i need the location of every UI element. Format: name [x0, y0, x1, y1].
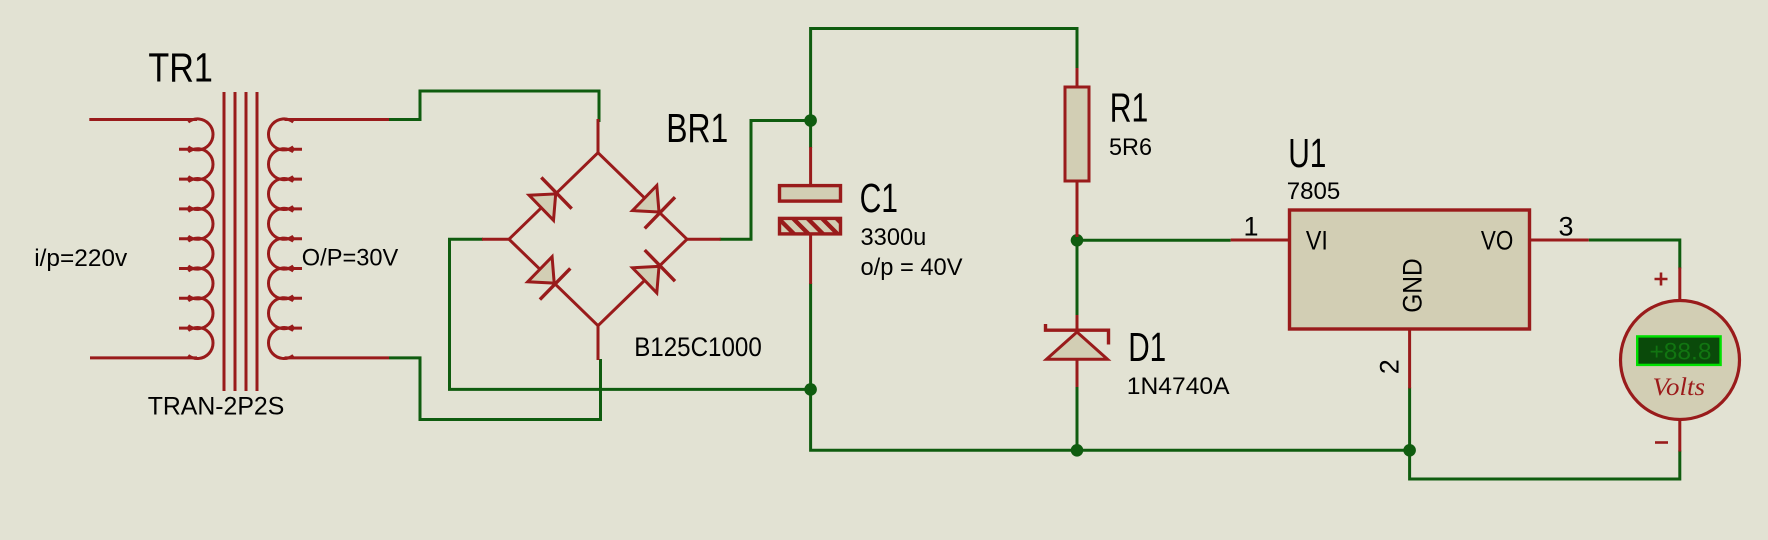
transformer TR1 secondary top lead pin: [285, 118, 390, 121]
wire secondary bottom to bridge AC2: [389, 358, 601, 420]
svg-text:Volts: Volts: [1653, 374, 1706, 401]
capacitor C1 top plate: [780, 186, 841, 202]
svg-text:3300u: 3300u: [861, 224, 927, 251]
bridge BR1 pin AC2 bottom: [597, 326, 600, 360]
resistor R1 bottom pin: [1076, 181, 1079, 237]
voltmeter body: [1621, 301, 1740, 420]
bridge BR1 pin DC+ right: [687, 238, 721, 241]
regulator U1 pin 3 (VO): [1530, 239, 1589, 242]
transformer TR1 secondary winding: [268, 119, 302, 359]
wire node to D1: [1076, 240, 1079, 317]
svg-text:C1: C1: [860, 175, 898, 221]
svg-text:B125C1000: B125C1000: [634, 332, 762, 362]
regulator U1 pin 1 (VI): [1231, 239, 1290, 242]
voltmeter display: [1637, 336, 1720, 365]
voltmeter - sign: [1655, 441, 1668, 444]
junction node U1 ground: [1403, 444, 1416, 457]
bridge diode D_TR (AC1 to DC+): [633, 186, 676, 229]
wire U1 GND to bottom rail: [1408, 387, 1411, 450]
transformer TR1 primary winding: [179, 119, 213, 359]
svg-text:5R6: 5R6: [1109, 134, 1152, 161]
zener D1 anode pin: [1076, 359, 1079, 387]
voltmeter - pin: [1678, 420, 1681, 452]
wire bottom rail: [811, 392, 1410, 450]
svg-text:VI: VI: [1306, 225, 1328, 255]
transformer TR1 primary bottom lead pin: [90, 356, 197, 359]
junction node C1 bottom: [804, 383, 817, 396]
wire node to U1 VI: [1077, 239, 1231, 242]
resistor R1 top pin: [1076, 68, 1079, 87]
svg-text:i/p=220v: i/p=220v: [34, 245, 128, 272]
transformer TR1 core: [224, 92, 257, 391]
svg-text:VO: VO: [1481, 225, 1513, 255]
svg-text:D1: D1: [1128, 324, 1166, 370]
svg-text:TR1: TR1: [148, 45, 213, 91]
wire bridge DC+ to C1 top node: [720, 121, 806, 240]
svg-text:GND: GND: [1397, 258, 1427, 313]
svg-text:BR1: BR1: [666, 105, 728, 151]
svg-text:3: 3: [1559, 212, 1574, 242]
wire top rail C1 to R1: [811, 29, 1077, 119]
wire R1 bottom to node: [1076, 234, 1079, 240]
svg-text:R1: R1: [1110, 85, 1149, 131]
svg-text:2: 2: [1375, 359, 1405, 374]
bridge diode D_BR (AC2 to DC+): [633, 250, 676, 293]
wire bridge DC- to C1 bottom node: [450, 239, 811, 389]
bridge diode D_TL (DC- to AC1): [529, 177, 572, 220]
transformer TR1 primary top lead pin: [89, 118, 197, 121]
bridge BR1 pin DC- left: [482, 238, 509, 241]
capacitor C1 bottom pin: [809, 234, 812, 284]
bridge BR1 diamond edges: [509, 153, 687, 326]
svg-text:TRAN-2P2S: TRAN-2P2S: [148, 393, 285, 421]
zener D1 cathode pin: [1076, 315, 1079, 330]
junction node D1 ground: [1071, 444, 1084, 457]
svg-text:7805: 7805: [1287, 178, 1341, 205]
wire secondary top to bridge AC1: [389, 91, 599, 122]
regulator U1 body: [1290, 210, 1530, 329]
svg-text:1N4740A: 1N4740A: [1127, 373, 1230, 400]
capacitor C1 top pin: [809, 147, 812, 184]
transformer TR1 secondary bottom lead pin: [285, 356, 390, 359]
svg-text:o/p = 40V: o/p = 40V: [861, 254, 964, 281]
junction node VI: [1071, 234, 1084, 247]
regulator U1 pin 2 (GND): [1408, 329, 1411, 388]
wire D1 anode to bottom rail: [1076, 386, 1079, 450]
zener D1 triangle: [1047, 332, 1108, 359]
svg-text:U1: U1: [1288, 130, 1326, 176]
wire C1 bottom to node: [809, 283, 812, 389]
bridge BR1 pin AC1 top: [597, 119, 600, 153]
bridge diode D_BL (DC- to AC2): [528, 257, 571, 300]
wire U1 VO to voltmeter +: [1589, 240, 1680, 269]
voltmeter + sign: [1655, 273, 1668, 286]
wire C1 top node stub: [809, 124, 812, 148]
svg-text:+88.8: +88.8: [1650, 339, 1712, 366]
capacitor C1 bottom plate (hatched): [775, 214, 869, 235]
svg-text:O/P=30V: O/P=30V: [302, 245, 399, 272]
voltmeter + pin: [1678, 268, 1681, 302]
zener D1 cathode bar: [1046, 324, 1109, 345]
svg-text:1: 1: [1244, 212, 1259, 242]
junction node C1 top: [804, 114, 817, 127]
wire bottom rail to voltmeter -: [1410, 450, 1680, 479]
resistor R1 body: [1065, 87, 1089, 181]
